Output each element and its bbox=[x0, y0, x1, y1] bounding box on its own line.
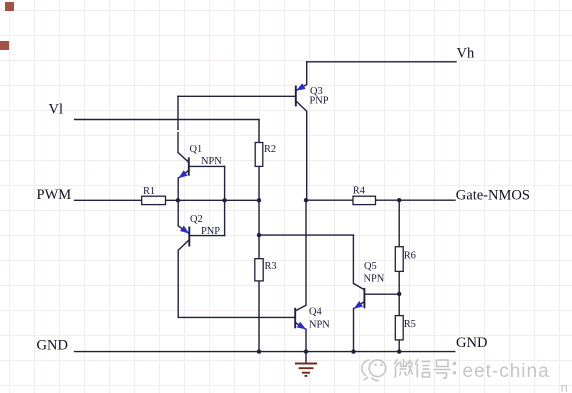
ground symbol bbox=[295, 352, 317, 376]
wire R2 node to R3 node bbox=[258, 200, 260, 235]
transistor Q2 PNP bbox=[178, 226, 189, 251]
wire left column Q3 base to Q1 collector bbox=[177, 96, 179, 152]
junction node R3 top tap bbox=[257, 233, 261, 237]
wire gap artifact on left column bbox=[177, 130, 179, 132]
svg-text:R3: R3 bbox=[265, 261, 277, 272]
wire Q1 emitter drop bbox=[177, 178, 179, 200]
watermark wechat eyes bbox=[374, 364, 382, 367]
wire GND rail bbox=[75, 351, 455, 353]
svg-text:PWM: PWM bbox=[37, 187, 72, 203]
wire Q1 base link bbox=[189, 165, 225, 167]
wire gate rail left bbox=[306, 199, 353, 201]
resistor R3 bbox=[255, 259, 263, 281]
wire Q2 base drop bbox=[224, 200, 226, 235]
watermark wechat icon bbox=[362, 360, 386, 381]
svg-text:Q2: Q2 bbox=[190, 214, 203, 225]
wire node to R3 top bbox=[258, 235, 260, 259]
svg-text:Vh: Vh bbox=[457, 46, 475, 62]
junction node GND R5 bbox=[397, 349, 401, 353]
transistor Q5 emitter arrow bbox=[352, 301, 363, 312]
wire Q4 base link bbox=[178, 316, 295, 318]
wire Q1 base drop bbox=[224, 166, 226, 200]
transistor Q5 NPN bbox=[353, 283, 364, 308]
wire R2 to PWM node bbox=[258, 166, 260, 200]
wire Q3 collector drop bbox=[306, 111, 308, 200]
wire Q5 collector drop bbox=[352, 235, 354, 283]
wire Q2 emitter riser bbox=[177, 200, 179, 226]
junction node R1/Q1 bbox=[176, 198, 180, 202]
transistor Q1 emitter arrow bbox=[176, 170, 187, 181]
svg-text:PNP: PNP bbox=[310, 96, 329, 107]
transistor Q3 PNP bbox=[296, 85, 307, 112]
wire R2 top feed bbox=[258, 120, 260, 143]
resistor R2 bbox=[255, 143, 263, 167]
svg-text:Q5: Q5 bbox=[364, 261, 377, 272]
wire Q2 base link bbox=[189, 235, 224, 237]
wire R6 top feed bbox=[398, 200, 400, 247]
wire node to R5 top bbox=[398, 294, 400, 316]
svg-text:R6: R6 bbox=[404, 251, 416, 262]
red corner mark left bbox=[0, 41, 9, 50]
wire R3 node to Q5 collector bbox=[259, 234, 353, 236]
wire Q2 collector drop bbox=[177, 250, 179, 317]
svg-text:R5: R5 bbox=[404, 319, 416, 330]
wire Q5 emitter drop bbox=[353, 309, 355, 352]
svg-text:NPN: NPN bbox=[201, 156, 222, 167]
red corner mark top bbox=[5, 2, 14, 11]
transistor Q4 emitter arrow bbox=[297, 322, 308, 332]
junction node Q3/Q4 column bbox=[304, 198, 308, 202]
wire Q4 emitter drop bbox=[305, 329, 307, 351]
svg-text:R2: R2 bbox=[264, 144, 276, 155]
wire Vh rail bbox=[307, 61, 456, 63]
svg-text:GND: GND bbox=[456, 335, 487, 351]
svg-text:Gate-NMOS: Gate-NMOS bbox=[456, 188, 530, 204]
svg-text:Vl: Vl bbox=[49, 102, 64, 118]
watermark colon bbox=[453, 362, 456, 375]
wire R4 to Gate-NMOS bbox=[376, 199, 456, 201]
wire R3 bottom to GND rail bbox=[258, 281, 260, 352]
resistor R6 bbox=[395, 247, 403, 272]
junction node Q1/Q2 base bbox=[222, 198, 226, 202]
svg-text:n: n bbox=[561, 380, 568, 393]
transistor Q2 emitter arrow bbox=[180, 226, 191, 237]
watermark chinese char 信 bbox=[415, 359, 431, 378]
svg-text:NPN: NPN bbox=[309, 320, 330, 331]
svg-text:Q1: Q1 bbox=[190, 144, 203, 155]
wire R5 bottom to GND rail bbox=[398, 340, 400, 352]
watermark chinese char 号 bbox=[434, 360, 451, 378]
wire R6 bottom to node bbox=[398, 271, 400, 294]
svg-text:PNP: PNP bbox=[201, 226, 220, 237]
junction node R6/R5 mid bbox=[397, 292, 401, 296]
resistor R4 bbox=[353, 196, 376, 204]
wire Vl rail bbox=[75, 119, 259, 121]
svg-text:NPN: NPN bbox=[364, 274, 385, 285]
svg-text:Q4: Q4 bbox=[309, 307, 323, 318]
watermark chinese char 微 bbox=[395, 359, 413, 378]
junction node GND R3 bbox=[257, 349, 261, 353]
svg-text:R4: R4 bbox=[353, 185, 366, 196]
transistor Q1 NPN bbox=[178, 153, 189, 178]
transistor Q4 NPN bbox=[295, 305, 306, 329]
junction node GND Q5 bbox=[351, 349, 355, 353]
wire Q4 collector drop bbox=[305, 200, 307, 305]
svg-text:eet-china: eet-china bbox=[463, 361, 550, 382]
wire Vh drop to Q3 bbox=[306, 62, 308, 85]
svg-text:GND: GND bbox=[37, 338, 68, 354]
wire PWM to R1 bbox=[75, 199, 142, 201]
svg-text:R1: R1 bbox=[143, 186, 155, 197]
resistor R1 bbox=[142, 196, 166, 204]
wire Q3 base bbox=[178, 95, 296, 97]
wire R1 to R2 column bbox=[166, 199, 260, 201]
junction node R2 bottom bbox=[257, 198, 261, 202]
junction node R6 top bbox=[397, 198, 401, 202]
junction node GND Q4 bbox=[304, 349, 308, 353]
transistor Q3 emitter arrow bbox=[294, 83, 305, 93]
wire Q5 base link bbox=[364, 293, 399, 295]
resistor R5 bbox=[395, 316, 403, 340]
